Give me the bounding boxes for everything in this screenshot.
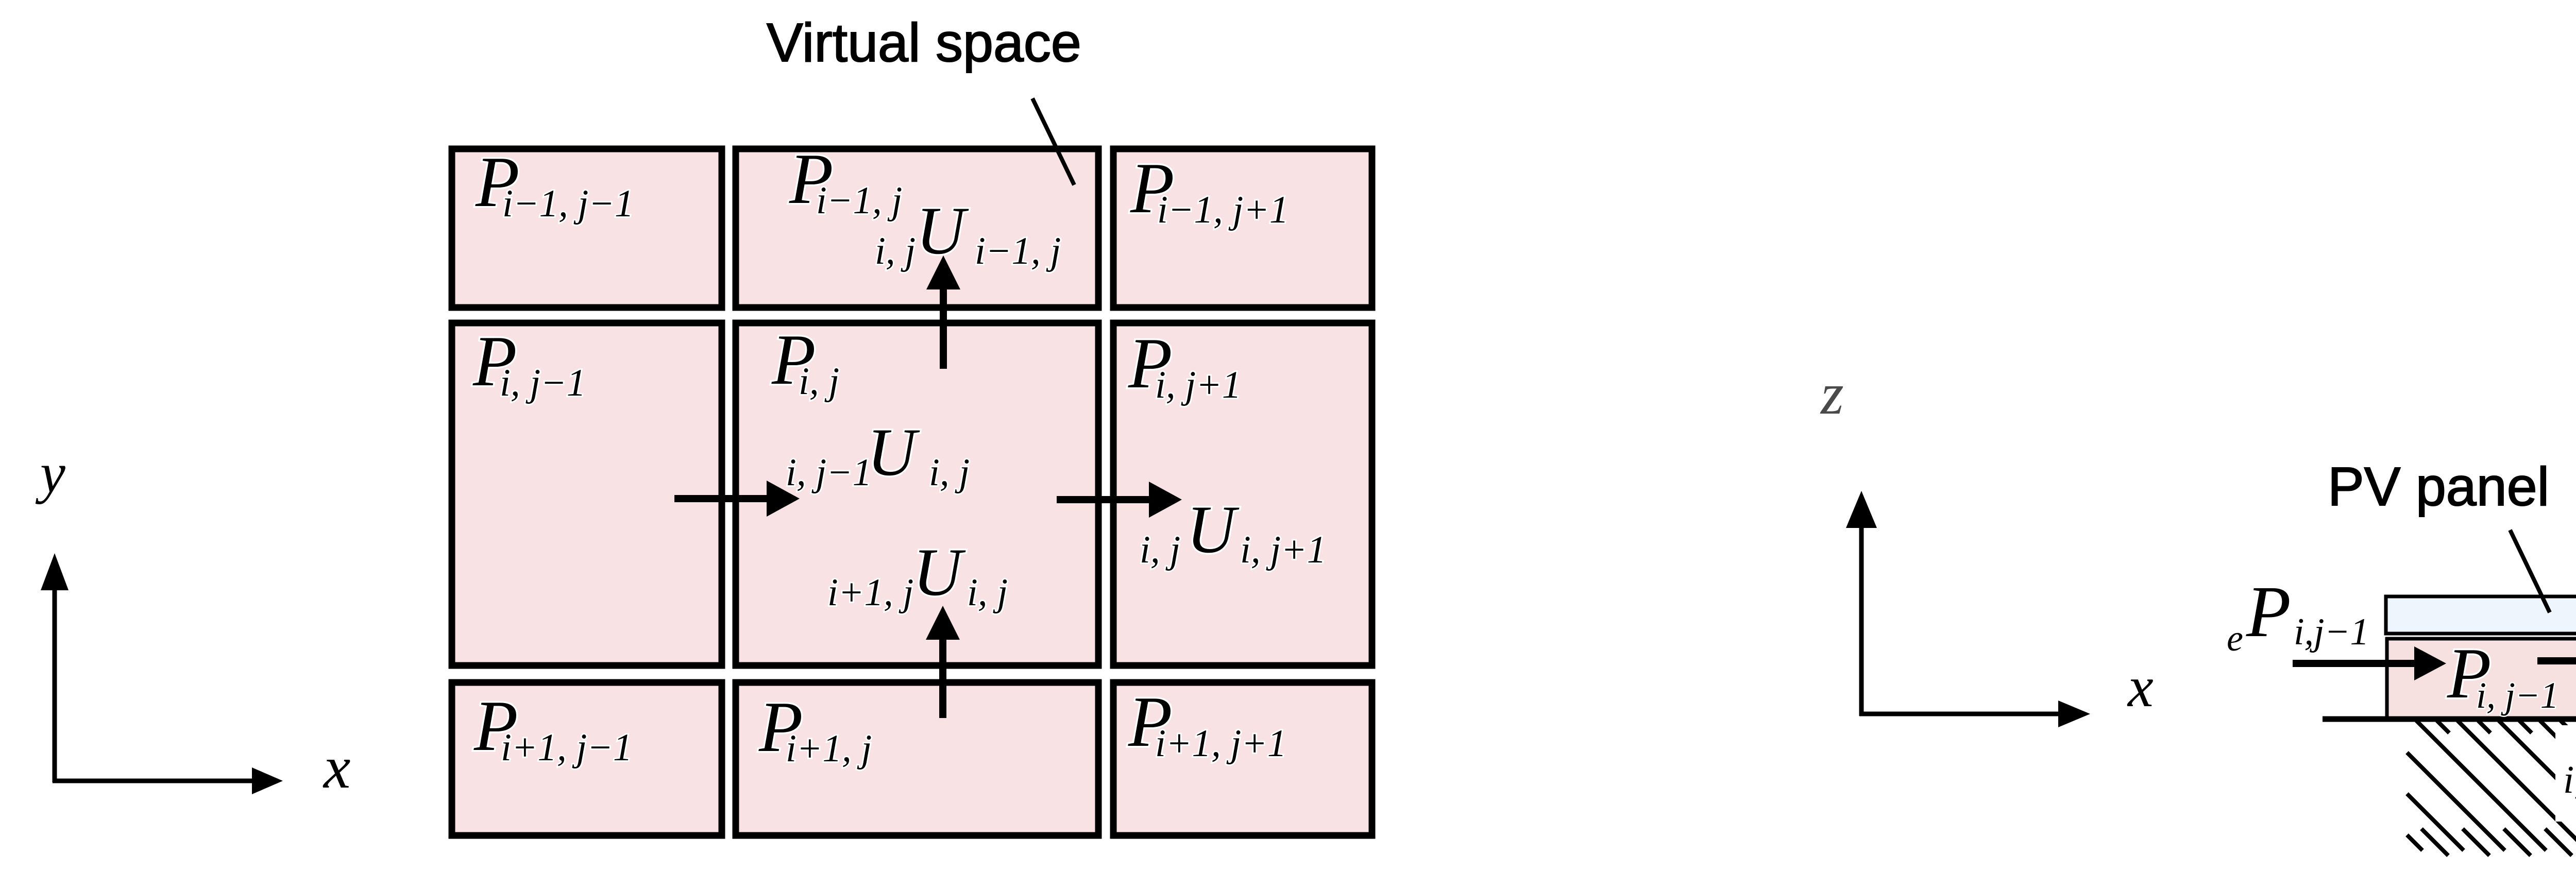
white knockout box for label U i,j <box>2555 725 2576 822</box>
arrow U i+1,j (up, bottom-middle) <box>939 635 946 718</box>
left y-axis arrow <box>53 587 57 782</box>
svg-text:i, j: i, j <box>875 230 916 272</box>
svg-text:z: z <box>1820 361 1844 426</box>
air gap top border <box>2385 637 2576 641</box>
hatched ground region <box>2407 721 2576 856</box>
svg-text:e: e <box>2227 618 2243 659</box>
svg-text:i+1, j−1: i+1, j−1 <box>501 726 632 769</box>
svg-text:U: U <box>913 534 966 610</box>
PV panel 1 <box>2386 596 2576 634</box>
flow arrow into cell i,j−1 <box>2293 660 2415 667</box>
svg-text:i, j+1: i, j+1 <box>1240 528 1326 571</box>
cell P i,j−1 <box>452 323 722 665</box>
svg-text:i, j: i, j <box>799 360 839 403</box>
cell P i+1,j−1 <box>452 682 722 835</box>
leader line from PV panel label to panel 1 <box>2510 530 2550 612</box>
svg-text:i, j: i, j <box>967 571 1008 614</box>
svg-text:i, j: i, j <box>929 451 970 494</box>
svg-text:i−1, j−1: i−1, j−1 <box>502 182 634 225</box>
svg-text:U: U <box>1187 491 1240 567</box>
svg-text:x: x <box>323 733 350 801</box>
svg-text:i+1, j+1: i+1, j+1 <box>1155 722 1286 765</box>
svg-text:i+1, j: i+1, j <box>786 727 872 770</box>
svg-text:P: P <box>2246 571 2291 652</box>
cell P i+1,j+1 <box>1113 682 1372 835</box>
svg-text:i, j−1: i, j−1 <box>786 451 872 494</box>
svg-text:i, j: i, j <box>1140 528 1180 571</box>
left x-axis arrow <box>53 779 253 783</box>
cell P i−1,j−1 <box>452 149 722 308</box>
svg-text:U: U <box>916 193 969 268</box>
cell P i,j <box>736 323 1098 665</box>
svg-text:x: x <box>2127 655 2154 719</box>
leader line from Virtual space label to top-middle cell <box>1032 98 1074 185</box>
svg-text:i,j−1: i,j−1 <box>2563 758 2576 801</box>
svg-text:Virtual space: Virtual space <box>767 12 1081 73</box>
cell P i,j+1 <box>1113 323 1372 665</box>
svg-text:y: y <box>35 441 65 504</box>
cell P i−1,j+1 <box>1113 149 1372 308</box>
ground line <box>2323 716 2576 722</box>
right z-axis arrow <box>1859 525 1864 716</box>
air gap left border <box>2385 637 2389 719</box>
cell P i+1,j <box>736 682 1098 835</box>
svg-text:U: U <box>867 414 920 490</box>
arrow U i−1,j (up, top-middle) <box>940 284 947 369</box>
air gap region (pink) under panels <box>2385 637 2576 719</box>
arrow U i,j (right, into middle cell) <box>674 495 769 502</box>
svg-text:i,j−1: i,j−1 <box>2294 611 2369 653</box>
arrow U i,j+1 (right, out of middle cell) <box>1057 496 1150 503</box>
right x-axis arrow <box>1859 712 2058 716</box>
svg-text:i−1, j+1: i−1, j+1 <box>1157 189 1289 231</box>
flow arrow i,j−1 to i,j <box>2537 657 2576 664</box>
svg-text:i−1, j: i−1, j <box>975 230 1061 272</box>
svg-text:i−1, j: i−1, j <box>816 179 902 222</box>
svg-text:i, j−1: i, j−1 <box>500 362 586 404</box>
svg-text:i, j+1: i, j+1 <box>1155 364 1241 406</box>
svg-text:PV panel: PV panel <box>2328 456 2549 517</box>
svg-text:i+1, j: i+1, j <box>827 571 913 614</box>
cell P i−1,j <box>736 149 1098 308</box>
svg-text:i, j−1: i, j−1 <box>2476 675 2559 716</box>
